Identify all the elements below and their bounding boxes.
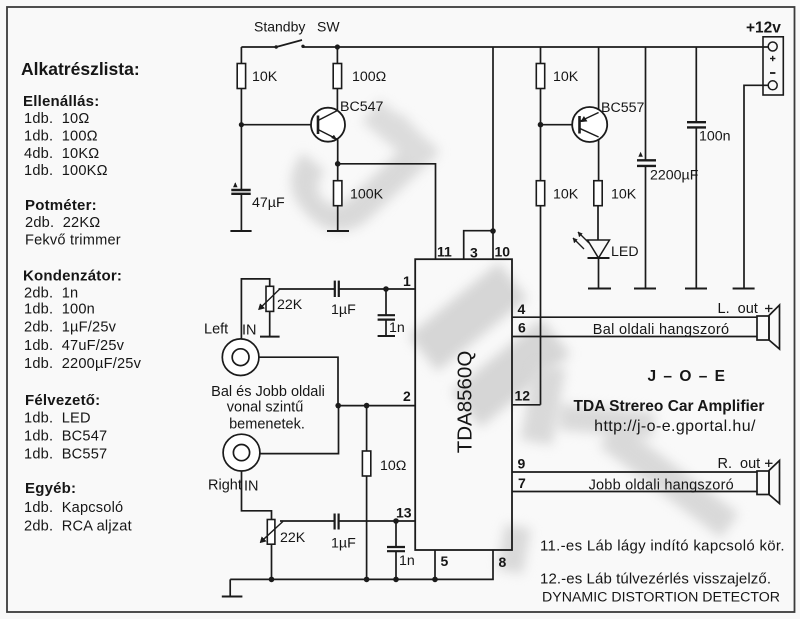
svg-text:10Ω: 10Ω [380,458,406,474]
IC U1 TDA8560Q [415,259,512,550]
svg-text:Jobb oldali hangszoró: Jobb oldali hangszoró [589,478,734,494]
watermark O [408,263,570,428]
parts list Ellenállás section [23,93,108,179]
connector +12v terminal block [763,37,783,95]
LED D1 [573,232,610,258]
svg-text:Right: Right [208,478,242,494]
capacitor 100n [687,122,706,127]
svg-text:Bal oldali hangszoró: Bal oldali hangszoró [593,322,730,338]
junction dot collector node [335,161,341,167]
junction dot base node [239,122,244,127]
wire right jack shield riser [260,406,339,454]
pin 5 label [441,553,449,569]
svg-text:10K: 10K [252,69,278,85]
pin 1 label [403,273,411,289]
wire node to R3 [337,164,339,181]
junction dot pin13 1n [393,518,399,524]
svg-text:Bal és Jobb oldali: Bal és Jobb oldali [211,384,325,400]
svg-text:2db. 1n: 2db. 1n [24,286,78,302]
pin 4 label [518,301,526,317]
svg-text:22K: 22K [277,297,303,313]
wire base node to R5 [540,125,542,181]
svg-text:1db. BC547: 1db. BC547 [24,429,107,445]
junction dot pin10 supply [490,228,496,234]
resistor R3 100K [334,181,384,206]
svg-text:1n: 1n [389,320,405,336]
junction dot bus 10ohm [364,577,370,583]
wire node to pin 11 riser [338,164,436,259]
svg-text:2: 2 [403,388,411,404]
wire 100n to ground [695,128,697,289]
ground under R3 100K [327,230,349,232]
svg-text:R. out: R. out [718,456,761,472]
junction dot bus pin5 [432,577,438,583]
wire 47uF to ground [240,194,242,232]
svg-text:Fekvő trimmer: Fekvő trimmer [25,233,121,249]
pin 9 label [518,456,526,472]
svg-text:Félvezető:: Félvezető: [25,392,100,409]
svg-text:11: 11 [437,244,452,260]
wire 2200uF riser [645,47,647,160]
ground under pot P1 [260,336,280,338]
parts list Egyéb section [24,480,132,535]
svg-text:1db. 47uF/25v: 1db. 47uF/25v [24,338,125,354]
svg-text:5: 5 [441,553,449,569]
svg-text:9: 9 [518,456,526,472]
wire pin 6 line to L speaker [512,336,757,338]
wire R2 bottom to BC547 collector [336,88,338,113]
svg-text:3: 3 [470,245,478,261]
wire 1n top cap to ground [385,320,387,336]
capacitor C4 1n bottom [387,547,405,551]
wire pot P1 bottom to ground [269,311,271,336]
watermark E [497,363,739,574]
svg-text:BC557: BC557 [601,100,644,116]
svg-text:10: 10 [495,244,511,260]
svg-text:8: 8 [499,554,507,570]
svg-text:1db. LED: 1db. LED [24,411,91,427]
capacitor C1 1uF [335,281,339,297]
pin 8 label [499,554,507,570]
svg-text:DYNAMIC DISTORTION DETECTOR: DYNAMIC DISTORTION DETECTOR [542,590,780,606]
wire pot P1 wiper to 1uF [279,288,335,290]
speaker R [757,461,780,504]
svg-text:1db. 2200µF/25v: 1db. 2200µF/25v [24,356,142,372]
ground under LED [588,288,611,290]
svg-text:1db. BC557: 1db. BC557 [24,447,107,463]
svg-text:1db. 100KΩ: 1db. 100KΩ [24,163,108,179]
wire 10ohm bottom to bus [366,476,368,580]
svg-text:BC547: BC547 [340,99,383,115]
resistor R1 10K [237,64,278,89]
capacitor C3 1uF bottom [335,514,339,530]
capacitor C2 1n [378,315,395,319]
svg-text:IN: IN [244,479,259,495]
svg-text:L. out: L. out [718,301,758,317]
wire 10ohm top lead [366,406,368,451]
wire pin3 pin10 box [464,231,493,260]
junction dot pin2 10ohm [364,403,370,409]
wire pot P2 bottom to bus [271,544,273,580]
svg-text:2db. RCA aljzat: 2db. RCA aljzat [24,519,132,535]
wire BC547 emitter to node [337,140,339,164]
svg-text:10K: 10K [553,187,579,203]
wire 1n bottom to bus [395,551,397,579]
svg-text:http://j-o-e.gportal.hu/: http://j-o-e.gportal.hu/ [594,418,756,435]
parts list Potméter section [25,197,121,249]
wire 1n top cap drop [385,289,387,315]
switch Standby SW lever [276,40,302,47]
wire R3 bottom to ground [337,206,339,232]
svg-text:4db. 10KΩ: 4db. 10KΩ [24,146,99,162]
junction dot bus 1n [393,577,399,583]
wire bus to ground symbol [229,579,231,596]
svg-text:1n: 1n [399,553,415,569]
svg-text:1: 1 [403,273,411,289]
wire right jack center to pot P2 [242,461,272,520]
svg-text:11.-es Láb lágy indító kapcsol: 11.-es Láb lágy indító kapcsoló kör. [540,538,785,555]
svg-text:6: 6 [518,320,526,336]
wire pin 4 line to L speaker [512,316,757,318]
wire 1uF to IC pin 1 [339,288,416,290]
svg-text:100n: 100n [699,129,731,145]
ground under 1n top [378,335,395,337]
pin 12 label [515,388,531,404]
wire pin 2 line [338,405,415,407]
svg-text:Left: Left [204,322,228,338]
pin 11 label [437,244,452,260]
wire R1 top lead [240,47,242,64]
wire R4 top lead [540,47,542,64]
svg-text:vonal szintű: vonal szintű [227,400,304,416]
ground under minus wire [733,288,755,290]
svg-text:12: 12 [515,388,531,404]
svg-text:100Ω: 100Ω [352,69,386,85]
wire BC557 collector to R6 [598,137,600,181]
wire R1 bottom to 47uF [240,88,242,190]
pin 7 label [518,475,526,491]
svg-text:IN: IN [242,323,257,339]
parts list Kondenzátor section [23,268,142,373]
pin 3 label [470,245,478,261]
switch contact dots [275,45,278,48]
wire LED to ground [598,258,600,289]
svg-text:1db. Kapcsoló: 1db. Kapcsoló [24,500,123,516]
resistor R7 10ohm [362,451,406,476]
pin 6 label [518,320,526,336]
junction dot BC557 base node [538,122,544,128]
junction dot bus pot P2 [269,577,275,583]
wire pin 12 line [512,404,541,406]
wire top rail left of switch [241,46,276,48]
svg-text:13: 13 [396,505,412,521]
svg-text:2200µF: 2200µF [650,168,699,184]
svg-text:1db. 10Ω: 1db. 10Ω [24,111,89,127]
IC bottom pin box 5 8 [435,550,493,579]
RCA jack Right IN [223,434,260,471]
wire left jack shield to pin 2 [259,357,338,405]
svg-text:TDA8560Q: TDA8560Q [453,351,476,454]
pin 2 label [403,388,411,404]
resistor R6 10K [594,181,637,206]
svg-text:Potméter:: Potméter: [25,197,97,214]
wire pin 9 line to R speaker [512,471,757,473]
RCA jack Left IN [222,339,259,376]
capacitor 2200uF [637,153,656,166]
svg-text:47µF: 47µF [252,195,285,211]
transistor Q2 BC557 [572,107,607,142]
svg-text:Kondenzátor:: Kondenzátor: [23,268,122,285]
svg-text:2db. 22KΩ: 2db. 22KΩ [25,215,100,231]
wire R5 bottom to pin4 line and pin12 bracket [540,206,542,405]
wire R4 to base node [540,88,542,125]
svg-text:1db. 100Ω: 1db. 100Ω [24,129,98,145]
svg-text:10K: 10K [611,187,637,203]
ground under 47uF [230,230,251,232]
wire BC557 emitter riser [598,47,600,113]
svg-text:bemenetek.: bemenetek. [229,417,305,433]
svg-text:1µF: 1µF [331,536,356,552]
wire left jack center to pot P1 top [241,279,269,348]
resistor R5 10K [536,181,578,206]
svg-text:1db. 100n: 1db. 100n [24,302,95,318]
wire BC557 base [541,124,580,126]
wire R6 to LED [597,206,599,241]
pin 10 label [495,244,511,260]
wire 100n riser [695,47,697,122]
capacitor 47uF [231,183,250,194]
svg-text:22K: 22K [280,530,306,546]
svg-text:TDA Strereo Car Amplifier: TDA Strereo Car Amplifier [574,398,765,415]
ground under 100n [685,288,707,290]
wire ground bus [230,578,435,580]
wire 1n bottom drop [395,521,397,547]
junction dot pin1 1n [383,286,389,292]
svg-text:1µF: 1µF [331,302,356,318]
svg-text:LED: LED [611,244,639,260]
svg-text:Egyéb:: Egyéb: [25,480,76,497]
speaker L [757,305,780,349]
svg-text:100K: 100K [350,187,384,203]
svg-text:2db. 1µF/25v: 2db. 1µF/25v [24,320,117,336]
transistor Q1 BC547 [311,108,345,142]
svg-text:Standby SW: Standby SW [254,19,340,35]
parts list heading [21,59,140,79]
wire 2200uF to ground [645,166,647,289]
svg-text:10K: 10K [553,69,579,85]
wire R2 top lead [336,47,338,64]
parts list Félvezető section [24,392,107,463]
pin 13 label [396,505,412,521]
ground under 2200uF [634,288,656,290]
wire minus terminal drop [744,85,768,288]
wire pot P2 wiper to 1uF bottom [280,520,335,522]
resistor R4 10K [536,64,578,89]
svg-text:+12v: +12v [746,20,781,37]
svg-text:J – O – E: J – O – E [648,368,727,385]
junction dot top rail at R2 [335,44,340,49]
potentiometer P2 22K [260,520,283,545]
label input description [211,384,325,433]
wire supply riser to pin3/10 box [492,47,494,231]
svg-text:Ellenállás:: Ellenállás: [23,93,99,110]
potentiometer P1 22K [258,286,280,311]
watermark J [243,54,480,285]
junction dot pin2 jack [335,403,341,409]
label plus L speaker [765,305,773,312]
label plus R speaker [765,460,773,467]
svg-text:Alkatrészlista:: Alkatrészlista: [21,59,140,79]
resistor R2 100ohm [333,64,386,89]
wire top rail switch to +12v connector [303,46,769,48]
svg-text:4: 4 [518,301,526,317]
wire BC547 base [241,124,318,126]
svg-text:12.-es Láb túlvezérlés visszaj: 12.-es Láb túlvezérlés visszajelző. [540,571,771,588]
wire pin 7 line to R speaker [512,491,757,493]
svg-text:7: 7 [518,475,526,491]
ground main bottom left [222,596,243,598]
wire 1uF bottom to IC pin 13 [339,520,415,522]
